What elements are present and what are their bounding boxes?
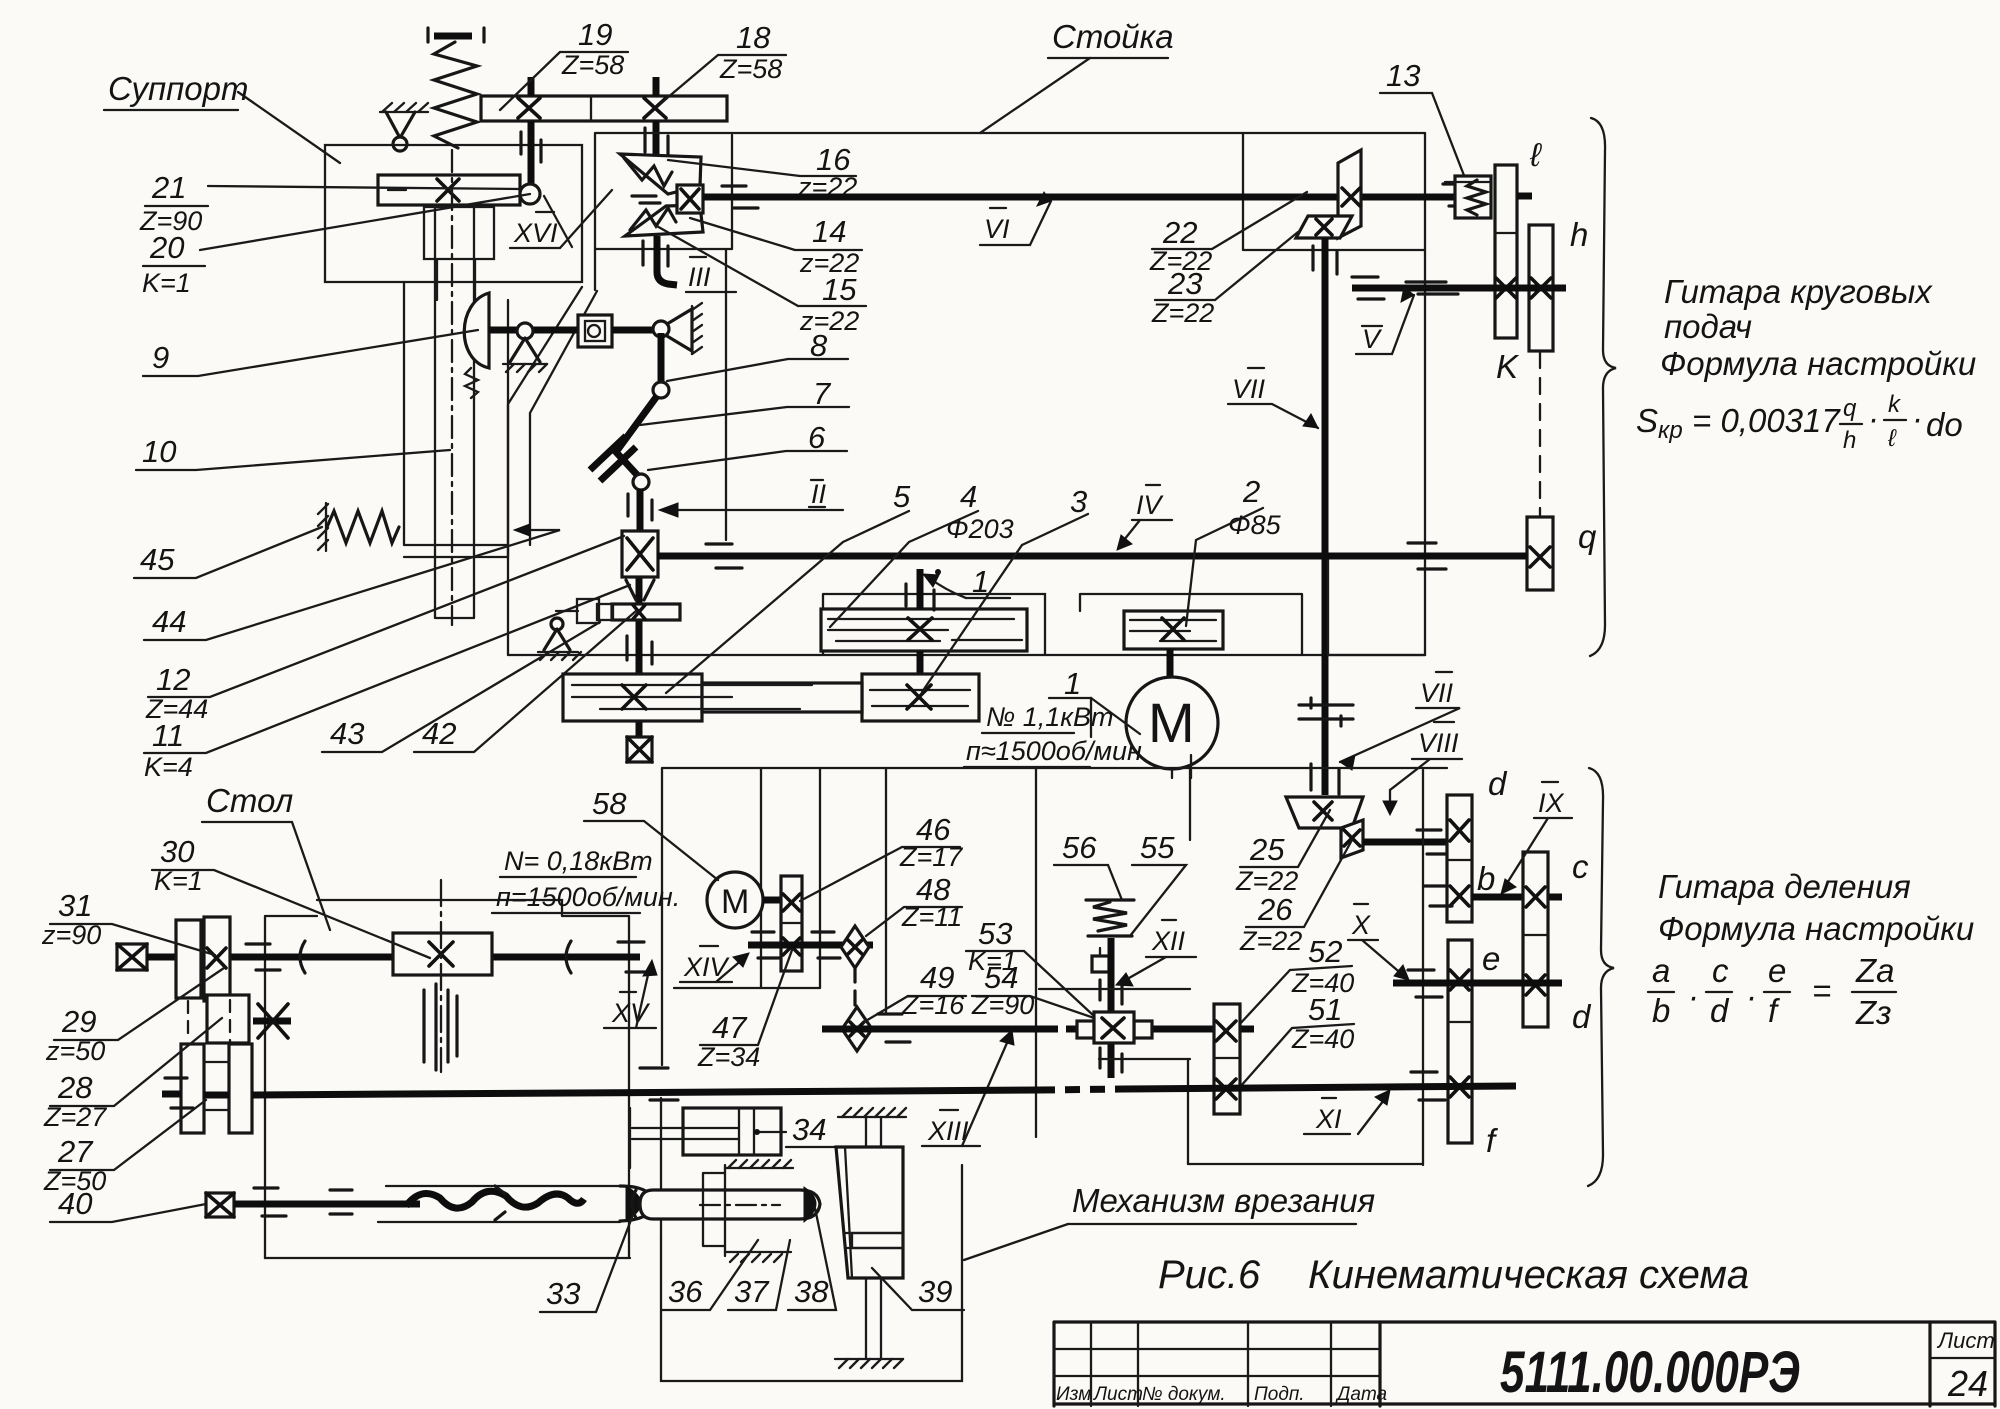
label 29 z=50 [45, 968, 224, 1066]
svg-text:55: 55 [1140, 830, 1175, 865]
svg-text:·: · [1868, 400, 1879, 437]
svg-text:X: X [1351, 910, 1371, 940]
label Механизм врезания [964, 1182, 1375, 1260]
label 6 [648, 420, 847, 470]
gear 28 (z=27) block [207, 995, 249, 1043]
labels 36 37 38 39 [662, 1208, 964, 1310]
vertical rod 39 [866, 1117, 881, 1359]
svg-text:Механизм врезания: Механизм врезания [1072, 1182, 1375, 1219]
stojka bottom edge [508, 654, 1425, 656]
worm unit 53/54 [1077, 1012, 1152, 1043]
label 55 [1130, 830, 1186, 936]
svg-text:40: 40 [58, 1186, 92, 1221]
rod 37 with ball 38 [632, 1187, 820, 1222]
bearing on VIII [1417, 830, 1449, 854]
label XIII with arrow [922, 1030, 1014, 1146]
svg-text:q: q [1843, 395, 1857, 422]
brace (division guitar) [1588, 768, 1614, 1186]
wire: leaders 21 and 20 [200, 186, 530, 250]
svg-text:5: 5 [893, 479, 911, 514]
gear bar 19-18 (Z=58 pair) [481, 96, 727, 121]
svg-text:Z=22: Z=22 [1239, 926, 1302, 956]
svg-text:10: 10 [142, 434, 176, 469]
svg-text:п=1500об/мин.: п=1500об/мин. [496, 882, 680, 912]
svg-text:29: 29 [61, 1004, 96, 1039]
svg-text:IX: IX [1538, 788, 1565, 818]
shaft XII (bold vertical) [1108, 938, 1115, 1078]
bracket 36 [703, 1160, 793, 1262]
shaft III below bevel 14 [657, 236, 677, 285]
shaft XIV (bold) [748, 942, 873, 949]
bearing on XV right [618, 942, 652, 972]
svg-text:Гитара круговых: Гитара круговых [1664, 273, 1933, 310]
svg-text:51: 51 [1308, 992, 1342, 1027]
bevel gear 23 (z=22) [1296, 216, 1352, 238]
svg-text:№ 1,1кВт: № 1,1кВт [986, 702, 1114, 732]
motor 58 (0.18kW) [707, 872, 763, 928]
worm shaft 40 (bold) [234, 1201, 420, 1208]
text Гитара круговых подач [1660, 273, 1976, 382]
crossed box left end of XV [117, 944, 147, 970]
label 45 [134, 527, 322, 578]
svg-text:34: 34 [792, 1112, 826, 1147]
svg-text:12: 12 [156, 662, 190, 697]
svg-text:38: 38 [794, 1274, 829, 1309]
42 left blocks [556, 599, 613, 623]
gear 15 hub with X [677, 185, 703, 213]
floor hatch [835, 1359, 903, 1368]
svg-text:Суппорт: Суппорт [108, 70, 248, 107]
formula a/b c/d e/f = Za/Z3 [1648, 952, 1896, 1031]
small tick on worm [495, 1186, 505, 1220]
gear 5-3 long bar [563, 674, 979, 721]
shaft XI dashed coupling section [1040, 1089, 1122, 1090]
wire: leader Суппорт [238, 92, 340, 163]
lever slider to wall joint (bold) [612, 327, 661, 334]
shaft gap marks between bevels [632, 196, 660, 203]
svg-text:2: 2 [1242, 474, 1260, 509]
svg-text:b: b [1477, 860, 1495, 897]
tube 33 outline [378, 1186, 653, 1222]
gear l / K stack [1495, 165, 1517, 338]
svg-text:Z=17: Z=17 [899, 842, 963, 872]
gear 29 partner rect [176, 920, 201, 998]
ground support with pivot (anchor of lever 21) [380, 103, 428, 151]
ceiling hatch [838, 1108, 906, 1117]
motor to box line [1172, 755, 1191, 778]
svg-text:f: f [1486, 1122, 1499, 1159]
svg-text:8: 8 [810, 328, 828, 363]
worm (wavy bold) [406, 1191, 584, 1208]
bearing XI at stol right [640, 1068, 678, 1100]
svg-text:Z=58: Z=58 [561, 50, 624, 80]
label 15 z=22 [655, 225, 866, 336]
label V [1356, 287, 1414, 354]
cam 9 (bevel half-disc) [464, 293, 489, 368]
svg-text:9: 9 [152, 340, 169, 375]
svg-text:37: 37 [734, 1274, 770, 1309]
spring (vertical, on spindle axis) [434, 42, 477, 148]
bearing on XI right [1411, 1072, 1445, 1100]
shaft IX (bold b-c) [1472, 894, 1562, 901]
stojka right edge [1424, 133, 1426, 655]
slip clutch 13 [1445, 176, 1491, 218]
bearing marks mid 40 [330, 1190, 352, 1214]
svg-text:28: 28 [57, 1070, 93, 1105]
label 26 z=22 [1239, 840, 1352, 956]
svg-text:Z=34: Z=34 [697, 1042, 760, 1072]
gear 4 (F203 big wheel) [821, 609, 1027, 651]
label 10 [136, 434, 450, 470]
svg-text:XVI: XVI [513, 218, 558, 248]
svg-text:ℓ: ℓ [1529, 136, 1542, 173]
joint circle [653, 382, 669, 398]
svg-text:42: 42 [422, 716, 456, 751]
label 30 K=1 [152, 834, 430, 958]
svg-text:e: e [1768, 952, 1786, 989]
enclosure line right guitar [1188, 770, 1423, 1165]
label II with arrow [659, 479, 843, 517]
bearing XII lower [1100, 1048, 1122, 1072]
cam block 39 [836, 1147, 903, 1278]
label 47 Z=34 [697, 950, 792, 1072]
svg-text:Z=27: Z=27 [43, 1102, 107, 1132]
svg-text:Z=40: Z=40 [1291, 1024, 1354, 1054]
shaft V [1352, 285, 1566, 292]
vertical shaft 1 (bold) [917, 569, 924, 674]
svg-text:Стойка: Стойка [1052, 18, 1174, 55]
worm 42 bar [612, 604, 680, 620]
label 21 Z=90 [139, 170, 208, 236]
bearing marks left of b [1424, 886, 1452, 906]
svg-text:№ докум.: № докум. [1142, 1384, 1226, 1405]
svg-text:·: · [1746, 978, 1757, 1015]
label X with arrow [1348, 904, 1409, 980]
centerline through 30 [440, 880, 442, 1072]
bearing on shaft 18 [645, 128, 668, 160]
bevel gear 16 (z=22 upper) [620, 154, 701, 194]
lower joint circle [633, 474, 649, 490]
gear 4 box outline [823, 594, 1302, 655]
label 12 Z=44 [145, 536, 624, 724]
label 56 [1054, 830, 1122, 900]
bearing on IV right [1408, 543, 1446, 569]
label 44 [144, 524, 560, 640]
svg-text:XIV: XIV [683, 952, 731, 982]
label 9 [143, 330, 478, 376]
svg-text:56: 56 [1062, 830, 1097, 865]
svg-text:33: 33 [546, 1276, 580, 1311]
support under 42 [538, 618, 581, 660]
link down from joint (bold) [658, 333, 665, 390]
dashed link 31-28 [188, 1000, 230, 1044]
gear 31 (z=90) [204, 917, 230, 1001]
svg-text:1: 1 [1064, 666, 1081, 701]
gear c-d stack [1523, 852, 1548, 1027]
label XIV [680, 946, 749, 982]
label 33 [540, 1212, 634, 1312]
gear e-f stack [1448, 940, 1472, 1143]
bearing XI at stol left [165, 1078, 193, 1108]
label 18 Z=58 [660, 20, 786, 104]
label IX [1501, 782, 1572, 894]
svg-text:44: 44 [152, 604, 186, 639]
vertical rod (10) lower block [424, 207, 494, 300]
svg-text:6: 6 [808, 420, 826, 455]
stojka top edge [732, 132, 1425, 134]
wall support with joint [653, 303, 702, 354]
bearing on shaft 1 [906, 584, 934, 610]
svg-text:N= 0,18кВт: N= 0,18кВт [504, 846, 653, 876]
bevel gear 22 (z=22) [1338, 150, 1361, 238]
bearing XIII left [878, 1014, 910, 1042]
label 22 z=22 [1149, 192, 1307, 276]
svg-text:Z=22: Z=22 [1151, 298, 1214, 328]
label XI with arrow [1304, 1090, 1390, 1134]
shaft stub after gear l [1517, 193, 1532, 200]
svg-text:d: d [1710, 992, 1730, 1029]
label 49 Z=16 [864, 960, 966, 1022]
svg-text:21: 21 [151, 170, 186, 205]
svg-text:1: 1 [972, 564, 989, 599]
text Гитара деления [1658, 868, 1974, 947]
svg-text:3: 3 [1070, 484, 1087, 519]
shaft VI (bold horizontal) [703, 194, 1455, 201]
slider block (item 8 link guide) [578, 315, 612, 347]
svg-text:d: d [1488, 765, 1508, 802]
svg-text:K=1: K=1 [142, 268, 191, 298]
svg-text:14: 14 [812, 214, 846, 249]
gear 52/51 stack [1214, 1004, 1240, 1114]
svg-text:K=1: K=1 [968, 946, 1017, 976]
bearing on VI left [722, 186, 758, 208]
svg-text:Формула настройки: Формула настройки [1660, 345, 1976, 382]
label XII with arrow [1116, 920, 1196, 986]
mech enclosure [661, 1165, 962, 1381]
shaft XI left stub [162, 1094, 229, 1095]
svg-text:Изм: Изм [1056, 1384, 1091, 1405]
svg-text:III: III [688, 262, 711, 292]
label 40 [50, 1186, 206, 1222]
svg-text:z=22: z=22 [799, 306, 859, 336]
worm wheel 30 (K=1) [393, 933, 492, 975]
svg-text:Zз: Zз [1855, 994, 1892, 1031]
small spring under cam [465, 368, 478, 398]
svg-text:M: M [721, 883, 749, 921]
bearing on shaft XVI [521, 132, 541, 162]
label 1 (top arrow) [923, 564, 1010, 599]
svg-text:31: 31 [58, 888, 92, 923]
svg-text:VII: VII [1420, 678, 1454, 708]
svg-text:XI: XI [1315, 1104, 1342, 1134]
svg-text:XII: XII [1151, 926, 1186, 956]
lever: cam to slider (bold) [489, 327, 580, 334]
formula Skr [1636, 391, 1963, 454]
bearing on II top [628, 494, 652, 520]
gear a-b stack [1447, 795, 1472, 922]
diagonal link to lower joint (bold) [616, 396, 657, 478]
svg-text:VI: VI [984, 214, 1010, 244]
box around 53/54 [1039, 989, 1190, 1164]
clutch on VII [1299, 698, 1353, 726]
svg-text:25: 25 [1249, 832, 1285, 867]
label VII upper [1228, 368, 1318, 428]
svg-text:13: 13 [1386, 58, 1420, 93]
gear q [1527, 517, 1553, 590]
bearing on X [1408, 970, 1442, 997]
svg-text:39: 39 [918, 1274, 952, 1309]
svg-text:Лист: Лист [1092, 1384, 1143, 1405]
svg-text:45: 45 [140, 542, 175, 577]
svg-text:h: h [1570, 216, 1588, 253]
contact bars item 6 (two slanted bold strokes) [590, 436, 636, 481]
svg-text:q: q [1578, 518, 1597, 555]
label 13 [1380, 58, 1465, 178]
svg-text:п≈1500об/мин: п≈1500об/мин [966, 736, 1142, 766]
shaft XIII (bold) [822, 1026, 1254, 1033]
label 20 K=1 [142, 230, 205, 298]
label 42 [414, 611, 636, 752]
label Суппорт [104, 70, 248, 110]
bearing on IV left [706, 544, 742, 568]
svg-text:Z=58: Z=58 [719, 54, 782, 84]
label 53 K=1 [966, 916, 1094, 1016]
crossed box 40 [206, 1193, 234, 1217]
gear bar 21 (Z=90 rack) [378, 175, 520, 205]
bevel box outline [595, 133, 732, 290]
svg-text:=: = [1812, 972, 1831, 1009]
svg-text:19: 19 [578, 17, 612, 52]
bearing on shaft III [643, 241, 668, 266]
svg-text:k: k [1888, 391, 1902, 418]
link 48-49 dashes [853, 968, 856, 1008]
svg-text:XV: XV [611, 998, 651, 1028]
svg-text:II: II [811, 479, 827, 509]
diamond 49 (z=16) [842, 1007, 872, 1051]
svg-text:z=90: z=90 [41, 920, 101, 950]
svg-text:a: a [1652, 952, 1670, 989]
svg-text:= 0,00317: = 0,00317 [1692, 402, 1841, 439]
shaft VII (bold vertical) [1322, 238, 1329, 795]
gear 46/47 stack [781, 876, 802, 971]
spindle housing (vertical guide) [404, 150, 508, 625]
worm 20 (K=1) circle [520, 184, 540, 204]
bearing XIV right [812, 932, 840, 958]
label 43 [322, 622, 600, 752]
label 25 z=22 [1235, 810, 1330, 896]
break marks on XV [300, 941, 571, 973]
label IV with arrow [1117, 485, 1172, 550]
X-cross at bottom of shaft II [627, 737, 652, 762]
svg-text:Формула настройки: Формула настройки [1658, 910, 1974, 947]
label 31 z=90 [41, 888, 215, 955]
label III [686, 257, 736, 292]
bearing on XV mid [246, 944, 280, 970]
spring 45 with wall [318, 503, 399, 551]
svg-text:h: h [1843, 427, 1856, 454]
svg-text:18: 18 [736, 20, 771, 55]
svg-text:22: 22 [1162, 215, 1197, 250]
suppport box outline [325, 145, 582, 282]
shaft II vertical (bold) [639, 489, 640, 737]
latch 57 square [1092, 948, 1109, 972]
motor text block [964, 666, 1142, 767]
piston 34 [630, 1108, 781, 1168]
gear 12 (Z=44) box [622, 531, 658, 577]
svg-text:24: 24 [1947, 1363, 1988, 1404]
svg-text:43: 43 [330, 716, 364, 751]
bevel gear 26 (z=22) [1341, 820, 1363, 858]
svg-text:Φ85: Φ85 [1228, 510, 1282, 540]
svg-text:b: b [1652, 992, 1670, 1029]
shaft XV (bold) [147, 954, 640, 961]
label 16 z=22 [668, 142, 857, 202]
svg-text:кр: кр [1658, 417, 1683, 444]
bearing on VII lower [1311, 764, 1339, 794]
label XVI [510, 190, 612, 248]
label 7 [640, 376, 849, 425]
label 11 K=4 [144, 585, 630, 782]
svg-text:S: S [1636, 402, 1658, 439]
spring 56 [1086, 900, 1134, 936]
svg-text:58: 58 [592, 786, 627, 821]
brace (guitar of circular feeds) [1590, 118, 1616, 656]
label 2 F85 [1186, 474, 1282, 626]
bearing on V [1352, 277, 1458, 299]
svg-text:52: 52 [1308, 934, 1342, 969]
svg-text:K: K [1496, 348, 1520, 385]
label 28 z=27 [43, 1018, 222, 1132]
label Стойка [980, 18, 1174, 133]
svg-text:27: 27 [57, 1134, 94, 1169]
diamond 48 (z=11) [841, 926, 869, 968]
svg-text:d: d [1572, 998, 1592, 1035]
svg-text:подач: подач [1664, 308, 1752, 345]
label Стол [202, 782, 330, 930]
svg-text:K=1: K=1 [154, 866, 203, 896]
shaft VIII (bold) [1363, 839, 1447, 846]
svg-text:Гитара деления: Гитара деления [1658, 868, 1911, 905]
label 5 [666, 479, 911, 693]
svg-text:do: do [1926, 406, 1963, 443]
label XV with arrow [604, 960, 657, 1028]
svg-text:VII: VII [1232, 374, 1266, 404]
bearing on VII upper [1313, 246, 1337, 274]
svg-text:23: 23 [1167, 266, 1202, 301]
wire: enclosure drop line at x726 [725, 250, 727, 540]
svg-text:Лист: Лист [1936, 1328, 1995, 1353]
label 58 [584, 786, 718, 880]
stojka stepped left wall (double line) [508, 287, 597, 655]
svg-text:ℓ: ℓ [1887, 425, 1897, 452]
label VII lower [1340, 672, 1460, 770]
svg-text:Дата: Дата [1335, 1384, 1387, 1405]
label 14 z=22 [690, 214, 862, 278]
bearing XIV left [752, 932, 780, 958]
bearing XII upper [1100, 980, 1122, 1004]
shaft 18 stub [653, 77, 660, 158]
svg-text:26: 26 [1257, 892, 1293, 927]
spline lines under 30 [424, 984, 457, 1070]
dashed line h to q [1539, 352, 1541, 516]
pivot support under lever [503, 323, 547, 372]
svg-text:IV: IV [1136, 490, 1165, 520]
svg-text:Φ203: Φ203 [946, 514, 1014, 544]
bevel gear 25 (z=22) [1286, 797, 1363, 828]
svg-text:c: c [1572, 848, 1589, 885]
svg-text:4: 4 [960, 479, 977, 514]
shaft X (bold e-d) [1393, 980, 1562, 987]
